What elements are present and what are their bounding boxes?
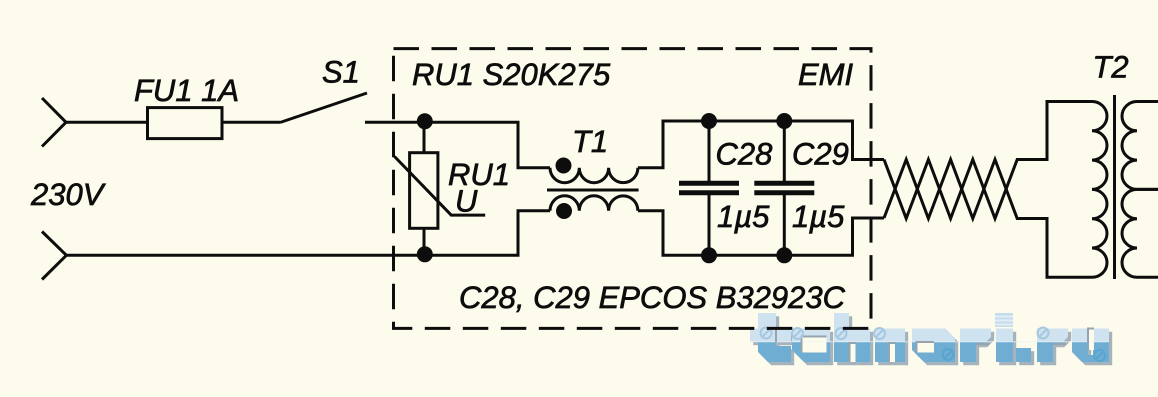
watermark blue letter blocks	[750, 313, 1109, 362]
varistor bottom lead	[423, 228, 426, 255]
svg-text:C29: C29	[792, 136, 849, 171]
twisted pair line A	[884, 102, 1092, 219]
watermark i tittle striped	[995, 313, 1013, 327]
watermark tehnari.ru	[750, 313, 1112, 365]
watermark shadow layer	[753, 316, 1112, 365]
transformer T2 secondary bottom half	[1122, 189, 1158, 277]
varistor RU1 body	[410, 153, 438, 229]
transformer T2 core	[1113, 95, 1116, 279]
fuse FU1 body	[148, 108, 223, 139]
wire bottom-left	[66, 254, 424, 257]
junction dot C29 top	[776, 113, 792, 129]
watermark inner bevel lines	[776, 329, 1094, 363]
transformer T2 primary winding	[1092, 102, 1107, 278]
svg-text:EMI: EMI	[798, 57, 854, 92]
bottom rail C28 to C29 to exit	[709, 218, 884, 255]
input terminal bottom chevron	[42, 232, 66, 280]
junction dot C29 bottom	[776, 247, 792, 263]
wire top-left to fuse	[66, 121, 148, 124]
junction dot C28 bottom	[701, 247, 717, 263]
twisted pair line B	[884, 160, 1092, 278]
capacitor C29 bottom lead	[783, 195, 786, 255]
svg-text:S1: S1	[322, 55, 360, 90]
svg-text:C28, C29 EPCOS B32923C: C28, C29 EPCOS B32923C	[459, 280, 846, 315]
watermark screw bolts	[761, 328, 1049, 340]
wire T1 to C28 bottom	[638, 211, 709, 256]
svg-text:230V: 230V	[30, 177, 107, 212]
T1 top winding arcs	[550, 168, 638, 183]
input terminal top chevron	[42, 98, 66, 147]
wire switch to varistor node	[365, 121, 425, 124]
wire T1 to C28 top	[638, 121, 709, 168]
svg-text:T2: T2	[1093, 50, 1129, 85]
transformer T2 secondary top half	[1122, 102, 1158, 190]
svg-text:1µ5: 1µ5	[717, 199, 770, 234]
svg-text:1µ5: 1µ5	[792, 199, 845, 234]
svg-text:T1: T1	[572, 124, 608, 159]
junction dot varistor top	[417, 113, 433, 129]
capacitor C28 top lead	[708, 121, 711, 181]
switch S1 blade	[280, 93, 367, 123]
capacitor C29 plates	[754, 181, 814, 186]
top rail C28 to C29 to exit	[709, 121, 884, 160]
svg-text:FU1 1A: FU1 1A	[134, 73, 239, 108]
T1 phasing dot bottom	[556, 203, 572, 219]
junction dot varistor bottom	[417, 246, 433, 262]
watermark counter shading	[802, 329, 1095, 363]
varistor RU1 diagonal strike	[395, 157, 486, 216]
capacitor C29 top lead	[783, 121, 786, 181]
watermark seam	[750, 341, 1109, 342]
T1 phasing dot top	[556, 158, 572, 174]
wire node to T1 jog bottom	[425, 211, 550, 256]
capacitor C28 bottom lead	[708, 195, 711, 255]
svg-text:RU1 S20K275: RU1 S20K275	[412, 57, 611, 92]
svg-text:C28: C28	[716, 136, 774, 171]
wire node to T1 jog top	[425, 122, 550, 167]
junction dot C28 top	[701, 113, 717, 129]
EMI filter dashed box	[394, 49, 872, 329]
T1 bottom winding arcs	[550, 196, 638, 211]
svg-text:U: U	[455, 183, 478, 218]
T1 core line	[547, 189, 639, 192]
capacitor C28 plates	[679, 181, 739, 186]
varistor top lead	[423, 122, 426, 152]
wire through fuse to switch	[222, 121, 280, 124]
